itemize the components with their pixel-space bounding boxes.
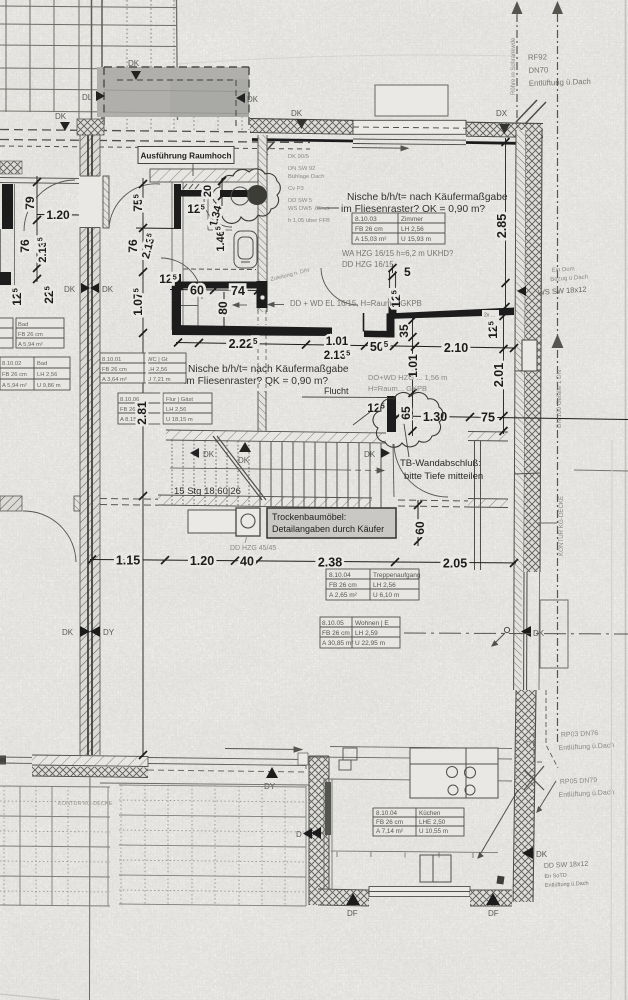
svg-text:DN SW 92: DN SW 92 [288, 166, 315, 172]
svg-text:FB 26 cm: FB 26 cm [18, 332, 43, 338]
bath right small notes [288, 154, 330, 224]
balcony slab grid lines crossing [104, 90, 249, 114]
arrow pointing right to partition [268, 302, 284, 306]
corridor dim cross line at y228 [136, 227, 178, 230]
svg-text:15 Stg 18,60|26: 15 Stg 18,60|26 [174, 486, 241, 497]
svg-text:DD HZG 16/15: DD HZG 16/15 [342, 260, 394, 269]
svg-text:DK: DK [128, 59, 140, 68]
sideboard rectangle [188, 510, 236, 533]
kitchen left wall (terrace side) [309, 756, 329, 905]
svg-text:1.20: 1.20 [46, 208, 70, 222]
bath vertical dim line [221, 178, 223, 206]
svg-text:8.10.02: 8.10.02 [2, 361, 21, 367]
svg-text:2x …: 2x … [484, 313, 496, 319]
niche wall lower thick black [172, 325, 332, 336]
Nische annotation upper [341, 192, 508, 215]
svg-text:U 6,10 m: U 6,10 m [373, 592, 399, 599]
WC partition black foot [257, 281, 268, 308]
bathroom left wall outline [172, 178, 183, 330]
niche wall upper thick black [387, 308, 515, 320]
svg-text:Treppenaufgang: Treppenaufgang [373, 572, 421, 579]
svg-text:U 7,21 m: U 7,21 m [147, 377, 171, 383]
Trockenbaumoebel note box [267, 508, 396, 538]
party wall door opening (flat entry) [79, 176, 101, 227]
vertical 80 dimension [223, 292, 225, 330]
svg-text:1.30: 1.30 [423, 410, 447, 424]
masonry joint lines right wall [514, 370, 541, 474]
dashed floor-slab lines corridor side [100, 499, 158, 506]
svg-text:Trockenbaumöbel:: Trockenbaumöbel: [272, 512, 346, 522]
DK marker stair up [238, 442, 251, 465]
niche wall connector black [387, 313, 395, 338]
table left B [0, 357, 70, 390]
table Kueche [373, 808, 464, 836]
right exterior wall upper: masonry layer [524, 130, 542, 572]
corridor wall jog piece [74, 496, 80, 511]
svg-text:DK: DK [238, 456, 250, 465]
svg-text:TB-Wandabschluß:: TB-Wandabschluß: [400, 458, 481, 469]
terrace tile grid centre horizontals [119, 785, 306, 906]
svg-text:35: 35 [397, 324, 411, 338]
terrace door sill lines living room [148, 756, 306, 769]
svg-text:KONTUR KG-DECKE: KONTUR KG-DECKE [558, 496, 565, 556]
niche recess left thin side [363, 313, 365, 332]
svg-text:A 2,65 m²: A 2,65 m² [329, 592, 358, 599]
DK marker kitchen right [522, 847, 548, 859]
hallway door arc [109, 184, 160, 228]
kitchen floor line with ticks [331, 851, 498, 858]
neighbour flat black wall pier 2 [0, 272, 11, 285]
stair walk line with arrow [170, 468, 384, 473]
neighbour terrace door thin lines left [0, 757, 32, 763]
65 / 12.5 cloud labels [367, 401, 413, 420]
svg-text:A 5,94 m²: A 5,94 m² [18, 342, 43, 348]
building top exterior wall right segment [466, 122, 543, 137]
svg-text:U 10,55 m: U 10,55 m [419, 828, 448, 835]
svg-text:DK: DK [102, 285, 114, 294]
short rule right margin [404, 633, 628, 634]
svg-text:8.10.05: 8.10.05 [322, 620, 344, 627]
leader circle to DK wohnen [492, 627, 510, 646]
bathroom top partition black left [181, 190, 207, 197]
faint roof outline arc [178, 55, 516, 64]
terrace upper boundary dashed [100, 783, 309, 785]
D marker terrace right [296, 828, 312, 839]
top-left terrace tile grid verticals (solid) [6, 0, 79, 119]
svg-text:80: 80 [216, 301, 230, 315]
svg-text:LH 2,56: LH 2,56 [401, 226, 424, 233]
living room bottom wall outer hatched band [32, 755, 148, 767]
svg-text:8.10.04: 8.10.04 [329, 572, 351, 579]
left flat dimension labels [10, 196, 56, 306]
raumhoch hatched wall strip [150, 169, 258, 182]
bathroom left wall black pier lower [174, 285, 181, 330]
stair bottom edge hatched band [158, 495, 372, 508]
niche recess back bar [364, 331, 391, 338]
label chip on niche wall [482, 310, 499, 318]
vent axis line 2 with arrow [557, 14, 559, 742]
DK marker balcony left [82, 91, 105, 102]
top-left terrace tile grid horizontals [0, 6, 249, 113]
kitchen bottom wall right segment [470, 890, 512, 906]
shower corner lines bathroom [208, 197, 232, 231]
stair treads solid (right run) [260, 441, 381, 508]
svg-text:WC | Gt: WC | Gt [147, 357, 168, 363]
cooktop circles [447, 767, 476, 796]
D marker kitchen left wall [311, 827, 321, 839]
svg-text:1.01: 1.01 [326, 336, 349, 348]
svg-text:60: 60 [190, 284, 204, 298]
svg-text:DN 100 Gefälle 1 DN: DN 100 Gefälle 1 DN [556, 370, 563, 428]
kitchen upper cabinet line [330, 747, 512, 749]
svg-text:DY: DY [526, 741, 536, 748]
svg-text:Cv P3: Cv P3 [288, 186, 304, 192]
kitchen top boundary line [309, 757, 512, 759]
main horizontal dimension chain y560 [90, 560, 516, 564]
bath inner door arc [204, 199, 232, 227]
bath dims cluster [187, 185, 227, 252]
DX corner mark top-right [516, 100, 546, 124]
svg-text:U 22,95 m: U 22,95 m [355, 640, 385, 647]
svg-text:1.20: 1.20 [190, 554, 214, 568]
WC / room partition wall hatched [258, 135, 267, 312]
leader line for upper Nische note [317, 207, 339, 209]
svg-text:8.10.01: 8.10.01 [102, 357, 121, 363]
svg-text:A 30,85 m²: A 30,85 m² [322, 640, 354, 647]
bathroom left wall black pier upper [174, 184, 181, 229]
svg-text:DL: DL [82, 93, 93, 102]
svg-text:LH 2,59: LH 2,59 [355, 630, 378, 637]
svg-text:40: 40 [240, 555, 254, 569]
chimney block above top wall [375, 85, 448, 116]
svg-text:DK: DK [247, 95, 259, 104]
DD HZG 45/45 note [230, 536, 276, 552]
svg-text:79: 79 [23, 196, 37, 210]
svg-text:2.81: 2.81 [135, 401, 149, 425]
DY marker terrace door [264, 767, 278, 791]
svg-text:20: 20 [202, 185, 214, 197]
svg-text:60: 60 [413, 521, 427, 535]
svg-text:DK: DK [203, 450, 215, 459]
corridor dimension labels [126, 194, 158, 424]
DK marker stair right [364, 448, 390, 459]
svg-text:Nische b/h/t= nach Käufermaßga: Nische b/h/t= nach Käufermaßgabe [188, 364, 349, 375]
svg-text:DY: DY [103, 628, 115, 637]
svg-text:Flucht: Flucht [324, 386, 349, 396]
svg-text:Detailangaben durch Käufer: Detailangaben durch Käufer [272, 524, 384, 534]
5 / 12.5 small dim above niche [392, 264, 394, 273]
svg-text:Küchen: Küchen [419, 810, 441, 817]
left flat dimension vertical line [36, 176, 38, 282]
corridor lower wall stub hatched [258, 391, 266, 432]
DK pair on party wall lower [62, 626, 115, 637]
vertical dimension 60 at trockenbau [417, 500, 419, 546]
stair treads dotted (left run) [172, 440, 249, 506]
neighbour door arc top [24, 180, 75, 231]
living room bottom wall masonry band [32, 766, 148, 778]
svg-text:LH 2,56: LH 2,56 [166, 407, 186, 413]
Nische annotation lower [184, 364, 349, 387]
svg-text:A 15,03 m²: A 15,03 m² [355, 236, 387, 243]
corner arrow mark at top wall [261, 142, 274, 157]
svg-text:5: 5 [404, 265, 411, 279]
DO+WD HZG faint note [368, 373, 447, 393]
KONTUR KG-DECKE box right [540, 600, 568, 668]
washbasin dark bowl [247, 185, 267, 205]
bathroom door arc [161, 258, 202, 299]
svg-text:DF: DF [488, 909, 499, 918]
svg-text:En SoTD: En SoTD [544, 873, 567, 880]
svg-text:74: 74 [231, 284, 245, 298]
right exterior wall upper: insulation layer [514, 130, 526, 572]
svg-text:2.10: 2.10 [444, 341, 468, 355]
svg-text:FB 26 cm: FB 26 cm [322, 630, 350, 637]
kitchen island two squares [420, 855, 451, 882]
svg-text:U 9,86 m: U 9,86 m [37, 383, 61, 389]
hatch strip at flur edge lower [468, 499, 508, 508]
DK marker stair left [190, 448, 215, 459]
table Treppenaufgang [326, 569, 419, 600]
leader TB note to cloud [404, 424, 409, 457]
5cm wall stub above niche: thin double lines [390, 271, 396, 301]
svg-text:WA HZG 16/15 h=6,2 m UKHD?: WA HZG 16/15 h=6,2 m UKHD? [342, 249, 454, 258]
party wall centre double line [88, 119, 92, 755]
svg-text:A 3,64 m²: A 3,64 m² [102, 377, 127, 383]
vertical fold line faint far right [611, 440, 612, 1000]
terrace tile grid bottom-left horizontals [0, 786, 110, 906]
door hinge circle on partition [260, 295, 265, 300]
svg-text:65: 65 [399, 406, 413, 420]
right wall window zone (living) [514, 572, 540, 690]
top tile grid verticals dotted right patch [127, 0, 242, 130]
svg-text:DK: DK [364, 450, 376, 459]
kitchen left counter outline [324, 779, 332, 889]
stair slope double diagonal [213, 436, 266, 500]
terrace tile grid bottom-left verticals [20, 786, 108, 906]
top wall window (Fenster) [353, 120, 466, 144]
party wall axis line continuing to page bottom [89, 755, 92, 1000]
svg-text:76: 76 [18, 239, 32, 253]
svg-text:DK: DK [55, 112, 67, 121]
raumhoch label leader [192, 164, 194, 177]
kitchen sink small boxes [339, 748, 357, 770]
party wall hatched band [80, 119, 100, 755]
WS SW note mid right [550, 266, 589, 284]
column gaps in corridor tables [147, 352, 162, 425]
window opening direction arrow [352, 146, 408, 151]
DK marker on top wall left segment [291, 109, 307, 129]
kitchen bottom window [369, 887, 470, 897]
scan right edge line [625, 0, 627, 1000]
balcony dashed inner border [117, 80, 236, 130]
arrow line above terrace door [225, 747, 302, 752]
table Zimmer 8.10.03 [352, 213, 445, 244]
building top exterior wall left segment [250, 119, 353, 135]
top wall inner face thick line [252, 140, 353, 142]
svg-text:H=Raum... GKPB: H=Raum... GKPB [368, 384, 427, 393]
svg-text:Röhre in Schrankwde: Röhre in Schrankwde [511, 37, 517, 95]
svg-text:DK: DK [536, 850, 548, 859]
svg-text:LH 2,56: LH 2,56 [147, 367, 167, 373]
leader from wall to kontur line [537, 522, 557, 524]
svg-text:WS DW5 .65 us: WS DW5 .65 us [288, 206, 329, 212]
neighbour flat hatched pier bottom-left [0, 496, 22, 511]
svg-text:DX: DX [496, 109, 508, 118]
kitchen left counter dark strip [325, 782, 331, 835]
svg-text:A 5,94 m²: A 5,94 m² [2, 383, 27, 389]
kitchen upper counter block [410, 748, 498, 798]
neighbour hatched corner block [0, 161, 22, 174]
svg-text:D: D [296, 830, 302, 839]
svg-text:RF92: RF92 [528, 52, 547, 62]
entry door leaf [103, 176, 109, 228]
bath dimension 60/74 line [170, 290, 262, 291]
table corridor T1 [100, 353, 186, 383]
svg-text:A 7,14 m²: A 7,14 m² [376, 828, 403, 835]
balcony dashed outer border [104, 67, 249, 130]
svg-text:Bad: Bad [37, 361, 47, 367]
dashed floor-slab lines right of stair door [398, 500, 470, 507]
svg-text:DF: DF [347, 909, 358, 918]
DD SW note [544, 861, 590, 889]
DK marker balcony right [236, 93, 259, 104]
svg-text:1.15: 1.15 [116, 554, 140, 568]
party wall upper double line [92, 0, 103, 119]
shaded balcony slab [97, 67, 249, 117]
bath WC dashed separation [183, 268, 256, 271]
neighbour flat lower door arc [23, 511, 76, 562]
svg-text:Bühlage Dach: Bühlage Dach [288, 174, 324, 180]
shaft niche in right wall [522, 340, 537, 371]
svg-text:LH 2,56: LH 2,56 [37, 372, 57, 378]
hatch strip at flur edge upper [468, 432, 508, 442]
niche vertical dim line at x412 [412, 315, 414, 436]
dashed duct at kitchen top right [534, 690, 558, 768]
table corridor T2 [118, 393, 212, 424]
vent axis line 1 with arrow [516, 14, 518, 128]
Ausfuehrung Raumhoch label box [138, 147, 234, 164]
party wall top hatched head [77, 119, 104, 135]
svg-text:FB 26 cm: FB 26 cm [355, 226, 383, 233]
washing machine square [236, 508, 260, 536]
WC room top black wall bar [181, 282, 264, 289]
table stub at page edge [0, 318, 13, 348]
terrace door dashed threshold [148, 770, 306, 772]
TB wall stub double line [475, 441, 481, 570]
svg-text:DK: DK [291, 109, 303, 118]
kitchen worktop upper edge line [331, 779, 512, 781]
neighbour terrace door end blocks [0, 756, 6, 765]
svg-text:FB 26 cm: FB 26 cm [102, 367, 127, 373]
svg-text:KONTUR KG-DECKE: KONTUR KG-DECKE [58, 801, 113, 807]
washbasin outline [231, 187, 249, 205]
svg-text:DN70: DN70 [528, 65, 549, 75]
bathroom top partition hatch ticks [183, 184, 205, 189]
niche wall left black pier [172, 274, 181, 330]
1.20 dimension left flat [37, 214, 79, 217]
DK marker grid bottom [55, 112, 70, 131]
svg-text:Zimmer: Zimmer [401, 216, 424, 223]
small dark service box on kitchen wall [496, 876, 504, 885]
svg-text:U 18,15 m: U 18,15 m [166, 417, 193, 423]
svg-text:LH 2,56: LH 2,56 [373, 582, 396, 589]
svg-text:FB 26 cm: FB 26 cm [376, 819, 403, 826]
main dimension chain y347 [176, 343, 516, 349]
1.30 / 75 dimension line [396, 416, 628, 420]
svg-text:DD SW 5: DD SW 5 [288, 198, 312, 204]
DK marker top-right corner [496, 109, 510, 134]
svg-text:Nische b/h/t= nach Käufermaßga: Nische b/h/t= nach Käufermaßgabe [347, 192, 508, 203]
WC fixture [234, 231, 257, 268]
svg-text:DD HZG 45/45: DD HZG 45/45 [230, 545, 276, 552]
svg-text:Wohnen | E: Wohnen | E [355, 620, 389, 627]
niche wall lower-right black pier (cloud area) [387, 396, 396, 432]
svg-text:75: 75 [481, 411, 495, 425]
up arrow on axis 2 mid [552, 334, 564, 348]
svg-text:DK 90/5: DK 90/5 [288, 154, 309, 160]
svg-text:DO+WD HZG ... 1,56 m: DO+WD HZG ... 1,56 m [368, 373, 447, 382]
DK pair on party wall upper [64, 283, 114, 294]
svg-text:DK: DK [64, 285, 76, 294]
RP05 note [558, 776, 615, 799]
neighbour flat top wall thin lines [0, 178, 79, 184]
faint rule right margin y470 [574, 470, 628, 471]
RP03 note [558, 729, 615, 752]
svg-text:DK: DK [62, 628, 74, 637]
diagonal service leader in kitchen [478, 790, 518, 858]
svg-text:Ausführung Raumhoch: Ausführung Raumhoch [141, 152, 232, 161]
revision cloud around washbasin [212, 169, 280, 224]
DK marker kitchen bottom right [486, 893, 500, 918]
RF92 note [528, 51, 591, 88]
kitchen bottom wall left segment [318, 889, 369, 906]
neighbour flat black wall pier 1 [2, 184, 13, 229]
DK marker living window [521, 626, 545, 638]
DK marker balcony top [128, 59, 141, 80]
svg-text:h 1,05 über FFB: h 1,05 über FFB [288, 218, 330, 224]
stair top landing hatched band [166, 430, 386, 443]
svg-text:im Fliesenraster? QK = 0,90 m?: im Fliesenraster? QK = 0,90 m? [184, 376, 328, 387]
svg-text:bitte Tiefe mitteilen: bitte Tiefe mitteilen [404, 471, 483, 482]
svg-text:2.01: 2.01 [492, 363, 506, 387]
svg-text:U 15,93 m: U 15,93 m [401, 236, 431, 243]
svg-text:LHE 2,50: LHE 2,50 [419, 819, 446, 826]
room door arc at niche [321, 268, 358, 305]
svg-text:2.38: 2.38 [318, 556, 342, 570]
svg-text:Flur | Gäst: Flur | Gäst [166, 397, 193, 403]
neighbour flat wall outline around piers [1, 184, 15, 285]
right wall 2.85 dimension [505, 138, 507, 311]
leader line lower Nische [162, 379, 182, 381]
X service mark on kitchen right wall [524, 766, 544, 790]
svg-text:8.10.03: 8.10.03 [355, 216, 377, 223]
right wall 12.5 / 2.01 dimension [503, 311, 505, 434]
svg-text:8.10.04: 8.10.04 [376, 810, 398, 817]
revision cloud lower (TB) [373, 392, 443, 447]
dashed wall projection between stubs [258, 310, 266, 391]
svg-text:Bad: Bad [18, 322, 28, 328]
svg-text:DD + WD EL 16/15, H=Raum... GK: DD + WD EL 16/15, H=Raum... GKPB [290, 299, 422, 308]
TB-Wandabschluss note [400, 458, 483, 482]
leader from 12.5 label [353, 412, 370, 425]
corridor dimension vertical line [142, 178, 144, 757]
dashed facade lines below grid [0, 130, 310, 150]
bathroom top partition black right [220, 190, 258, 197]
WA HZG note [342, 249, 454, 269]
arrow pointing to shower line [233, 303, 247, 307]
arrow leader RP05 to wall [537, 781, 556, 812]
svg-text:2.85: 2.85 [495, 214, 509, 238]
